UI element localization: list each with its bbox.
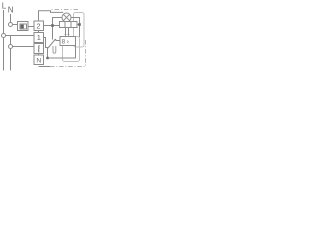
- svg-text:N: N: [8, 5, 14, 14]
- svg-text:N: N: [36, 57, 41, 64]
- svg-text:L: L: [2, 1, 7, 10]
- svg-text:8: 8: [62, 39, 66, 46]
- svg-text:›: ›: [67, 39, 69, 46]
- svg-text:1: 1: [37, 33, 41, 42]
- svg-text:2: 2: [36, 22, 40, 31]
